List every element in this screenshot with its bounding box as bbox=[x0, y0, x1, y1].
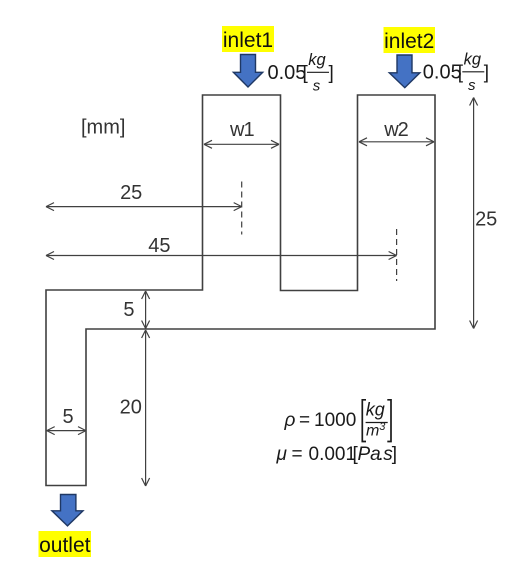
inlet2 highlight bbox=[384, 27, 436, 53]
svg-text:ρ: ρ bbox=[284, 410, 296, 431]
svg-text:=: = bbox=[299, 410, 310, 431]
dimension 25 vertical right bbox=[470, 98, 478, 329]
svg-text:0.001: 0.001 bbox=[309, 444, 357, 465]
dashed line B bbox=[396, 229, 398, 281]
dimension 25 horizontal bbox=[46, 203, 242, 211]
svg-text:5: 5 bbox=[62, 406, 73, 428]
dimension 45 horizontal bbox=[46, 252, 397, 260]
svg-text:s: s bbox=[313, 78, 321, 95]
svg-text:]: ] bbox=[484, 63, 489, 84]
dashed line A bbox=[241, 182, 243, 235]
svg-text:kg: kg bbox=[308, 51, 326, 69]
svg-text:=: = bbox=[292, 444, 303, 465]
svg-text:s: s bbox=[468, 77, 476, 94]
svg-text:1000: 1000 bbox=[314, 410, 356, 431]
viscosity formula bbox=[276, 444, 398, 465]
svg-text:0.05: 0.05 bbox=[268, 62, 307, 84]
svg-text:5: 5 bbox=[123, 299, 134, 321]
channel outline bbox=[46, 95, 435, 486]
svg-text:kg: kg bbox=[366, 400, 385, 420]
dimension w1 bbox=[204, 140, 279, 148]
svg-text:inlet1: inlet1 bbox=[223, 29, 273, 52]
svg-text:]: ] bbox=[329, 63, 334, 84]
dimension 5 vertical bbox=[142, 291, 150, 329]
svg-text:]: ] bbox=[392, 444, 397, 465]
inlet1 arrow bbox=[233, 55, 262, 88]
svg-text:[mm]: [mm] bbox=[81, 117, 125, 139]
outlet arrow bbox=[52, 495, 83, 526]
density formula bbox=[284, 400, 392, 442]
svg-text:outlet: outlet bbox=[39, 534, 91, 557]
svg-text:w1: w1 bbox=[229, 119, 254, 141]
dimension 20 vertical bbox=[142, 330, 150, 486]
svg-text:25: 25 bbox=[475, 209, 497, 231]
svg-text:0.05: 0.05 bbox=[423, 62, 462, 84]
inlet2 flow rate 0.05[kg/s] bbox=[423, 51, 489, 95]
svg-text:25: 25 bbox=[120, 182, 142, 204]
dimension 5 outlet bbox=[47, 427, 86, 435]
svg-text:inlet2: inlet2 bbox=[384, 30, 434, 53]
svg-text:45: 45 bbox=[148, 235, 170, 257]
svg-text:w2: w2 bbox=[383, 119, 408, 141]
svg-text:μ: μ bbox=[276, 444, 288, 465]
inlet1 flow rate 0.05[kg/s] bbox=[268, 51, 334, 95]
svg-text:kg: kg bbox=[464, 51, 482, 69]
inlet2 arrow bbox=[389, 55, 420, 88]
dimension w2 bbox=[359, 138, 434, 146]
inlet1 highlight bbox=[222, 26, 274, 52]
outlet highlight bbox=[39, 531, 92, 557]
svg-text:20: 20 bbox=[120, 397, 142, 419]
